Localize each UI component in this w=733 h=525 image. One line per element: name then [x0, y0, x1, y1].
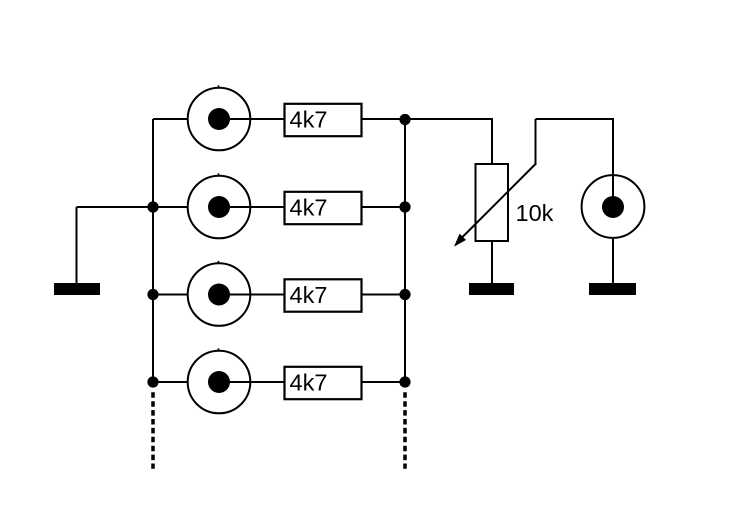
svg-text:4k7: 4k7 — [290, 370, 328, 396]
resistor R3 4k7 — [285, 279, 362, 311]
wire potentiometer bottom to ground — [491, 241, 493, 284]
wire right bus vertical — [404, 119, 406, 384]
ground GND3 (output jack ground) — [589, 283, 636, 295]
wire R1 to right bus — [362, 118, 405, 120]
wire J2 tip to R2 — [219, 206, 284, 208]
node junction left bus row2 — [147, 201, 158, 212]
wire bus to J2 shield — [153, 206, 187, 208]
wire left bus vertical — [152, 119, 154, 384]
RCA jack J1 (input 1) — [188, 85, 251, 150]
wire R2 to right bus — [362, 206, 405, 208]
resistor R2 4k7 — [285, 192, 362, 224]
potentiometer wiper arrow — [454, 164, 536, 247]
resistor R1 4k7 — [285, 104, 362, 136]
svg-text:4k7: 4k7 — [290, 282, 328, 308]
svg-text:4k7: 4k7 — [290, 195, 328, 221]
node junction right bus row2 — [399, 201, 410, 212]
wire bus to J3 shield — [153, 294, 187, 296]
wire R4 to right bus — [362, 381, 405, 383]
wire mix bus to potentiometer top — [405, 119, 492, 164]
wire R3 to right bus — [362, 294, 405, 296]
wire J3 tip to R3 — [219, 294, 284, 296]
potentiometer P1 10k body — [476, 164, 554, 241]
node junction right bus row4 — [399, 376, 410, 387]
node junction left bus row3 — [147, 289, 158, 300]
node junction right bus row1 — [399, 114, 410, 125]
wire bus to J1 shield — [153, 118, 187, 120]
wire J4 tip to R4 — [219, 381, 284, 383]
RCA jack J3 (input 3) — [188, 261, 251, 326]
wire wiper to top rail — [535, 119, 537, 165]
RCA jack J4 (input 4) — [188, 348, 251, 413]
wire right bus dashed continuation — [403, 392, 407, 469]
RCA jack J2 (input 2) — [188, 173, 251, 238]
resistor R4 4k7 — [285, 367, 362, 399]
ground GND2 (potentiometer ground) — [469, 283, 514, 295]
wire wiper rail to output jack — [536, 119, 614, 207]
ground GND1 (input bus ground) — [54, 283, 100, 295]
wire ground stem — [76, 207, 78, 284]
wire output jack shield to ground — [612, 239, 614, 284]
node junction left bus row4 — [147, 376, 158, 387]
node junction right bus row3 — [399, 289, 410, 300]
svg-text:4k7: 4k7 — [290, 107, 328, 133]
wire bus to J4 shield — [153, 381, 187, 383]
wire left bus dashed continuation — [151, 392, 155, 469]
wire ground to left bus — [77, 206, 154, 208]
wire J1 tip to R1 — [219, 118, 284, 120]
svg-text:10k: 10k — [516, 200, 554, 226]
RCA jack J5 (output) — [582, 175, 645, 238]
